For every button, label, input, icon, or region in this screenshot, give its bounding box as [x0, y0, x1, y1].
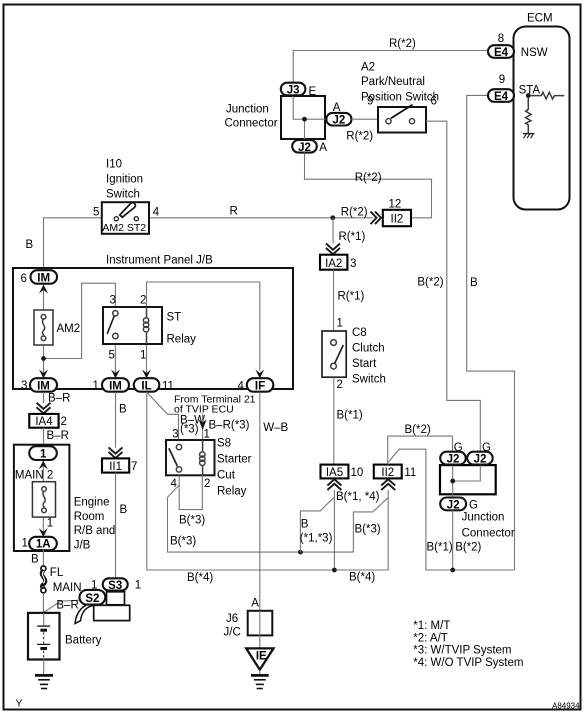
wire W-B from IF to J6	[260, 392, 289, 611]
svg-text:1: 1	[47, 518, 53, 530]
svg-text:IF: IF	[255, 381, 265, 393]
svg-text:J2: J2	[474, 454, 487, 466]
connector IA2 pin 3	[320, 255, 356, 270]
wire S8 pin 4 to pin 2 loop	[179, 475, 202, 509]
svg-text:1: 1	[204, 429, 210, 441]
wire R from ignition pin 4 to node R	[150, 206, 373, 219]
arrow down into 1A	[39, 528, 48, 537]
label From Terminal 21 of TVIP ECU	[174, 393, 256, 415]
wire B from 1A to FL MAIN	[31, 550, 43, 566]
svg-text:8: 8	[498, 33, 504, 45]
svg-text:MAIN: MAIN	[53, 582, 82, 594]
wire B(*1) from II2 top to right rail	[389, 449, 515, 570]
svg-text:ST: ST	[167, 312, 182, 324]
label A2 Park/Neutral Position Switch	[361, 62, 439, 104]
svg-text:*1: M/T: *1: M/T	[413, 620, 450, 632]
svg-text:B(*1): B(*1)	[427, 542, 453, 554]
wire from IL to S8 pin 3 (B-W *3)	[148, 393, 206, 440]
svg-text:B(*3): B(*3)	[179, 515, 205, 527]
svg-text:12: 12	[389, 199, 402, 211]
svg-text:B(*1, *4): B(*1, *4)	[336, 491, 380, 503]
connector J2 pin A (bottom)	[292, 140, 327, 154]
relay ST	[103, 295, 196, 362]
svg-text:1: 1	[140, 350, 146, 362]
svg-text:B–R(*3): B–R(*3)	[209, 420, 250, 432]
svg-text:W–B: W–B	[263, 422, 288, 434]
svg-text:A84934: A84934	[552, 702, 580, 711]
wire IM6 through AM2 fuse to IM3	[43, 284, 45, 378]
node R junction dot	[330, 215, 335, 220]
svg-text:J2: J2	[447, 454, 460, 466]
chassis ground inside ECM	[523, 134, 535, 139]
svg-text:E4: E4	[494, 91, 509, 103]
svg-text:B: B	[119, 404, 127, 416]
engine room R/B and J/B box	[14, 445, 115, 552]
svg-text:5: 5	[109, 350, 115, 362]
svg-text:C8: C8	[352, 327, 367, 339]
ECM U1	[514, 13, 570, 210]
wire ST relay coil pin 1 to IL	[146, 344, 148, 378]
svg-text:Instrument Panel J/B: Instrument Panel J/B	[106, 255, 213, 267]
arrow up into connector 1	[39, 461, 48, 470]
node STA junction dot	[526, 93, 531, 98]
svg-text:Cut: Cut	[217, 470, 236, 482]
svg-text:B(*2): B(*2)	[455, 542, 481, 554]
svg-text:B(*2): B(*2)	[417, 277, 443, 289]
wire B-R(*3) into S8 pin 1	[203, 414, 250, 441]
ground point IE	[246, 648, 273, 688]
svg-text:10: 10	[351, 467, 364, 479]
svg-text:IE: IE	[256, 651, 267, 663]
svg-text:R(*2): R(*2)	[346, 131, 373, 143]
svg-text:Ignition: Ignition	[106, 174, 143, 186]
chevron into II2 pin 12	[371, 212, 382, 225]
svg-text:E4: E4	[494, 47, 509, 59]
svg-text:Connector: Connector	[225, 118, 278, 130]
wire J2 to park/neutral pin 9	[346, 96, 378, 143]
connector 1A pin 1	[22, 537, 57, 551]
arrow down into IF	[255, 370, 264, 379]
svg-text:J/B: J/B	[74, 539, 91, 551]
svg-text:B: B	[120, 504, 128, 516]
connector IL pin 11	[134, 378, 174, 393]
svg-text:B–R: B–R	[48, 393, 70, 405]
chevron below IA5	[327, 479, 341, 490]
svg-text:6: 6	[21, 273, 27, 285]
svg-text:R: R	[230, 206, 238, 218]
svg-text:9: 9	[367, 96, 373, 108]
svg-text:J2: J2	[333, 115, 346, 127]
wire B from ECM pin 9 down right side	[467, 95, 515, 570]
svg-text:Relay: Relay	[217, 486, 247, 498]
svg-text:R(*2): R(*2)	[355, 172, 382, 184]
svg-text:S8: S8	[217, 438, 231, 450]
svg-text:Connector: Connector	[462, 528, 515, 540]
svg-text:B–R: B–R	[47, 430, 69, 442]
svg-text:Y: Y	[16, 698, 23, 710]
fuse AM2	[34, 310, 80, 345]
connector S2	[80, 590, 106, 605]
connector E4 pin 9	[488, 74, 540, 103]
connector J2 pin A (right)	[326, 102, 351, 127]
wire B(*2) from J2 G to II2 pin 11	[388, 424, 453, 465]
connector IA5 pin 10	[321, 465, 364, 479]
svg-text:IM: IM	[37, 381, 50, 393]
svg-text:II2: II2	[391, 214, 404, 226]
ground below battery	[35, 660, 53, 689]
wire B(*1,*3) from IA5 to junction	[300, 497, 335, 552]
svg-text:I10: I10	[106, 159, 122, 171]
wire B(*4) from IL down and right to II2	[147, 392, 388, 584]
svg-text:J3: J3	[287, 85, 300, 97]
fuse MAIN (engine room)	[32, 482, 55, 517]
fusible link FL MAIN	[41, 566, 82, 594]
wire inside engine room box	[42, 459, 44, 482]
svg-text:IA2: IA2	[325, 258, 342, 270]
svg-text:S3: S3	[108, 580, 122, 592]
svg-text:Battery: Battery	[65, 635, 102, 647]
wire R(*2) from node J3 to ECM pin 8	[293, 38, 488, 83]
svg-text:MAIN 2: MAIN 2	[15, 470, 53, 482]
svg-text:4: 4	[153, 207, 160, 219]
svg-text:2: 2	[204, 478, 210, 490]
connector II2 pin 11	[374, 465, 417, 479]
svg-text:IM: IM	[109, 381, 122, 393]
wire B(*1) from C8 pin 2 to IA5	[334, 377, 363, 464]
svg-text:R(*1): R(*1)	[339, 231, 366, 243]
connector J2 pin G (bottom)	[440, 498, 478, 512]
svg-text:B: B	[26, 239, 34, 251]
svg-text:R(*1): R(*1)	[338, 291, 365, 303]
svg-text:of TVIP ECU: of TVIP ECU	[174, 403, 234, 415]
connector S3 pin 1	[91, 578, 141, 592]
svg-text:Relay: Relay	[167, 334, 197, 346]
svg-text:R/B and: R/B and	[74, 525, 116, 537]
svg-text:*3: W/TVIP System: *3: W/TVIP System	[413, 645, 511, 657]
connector IM pin 1	[93, 378, 130, 393]
arrow up into IM6	[39, 285, 48, 294]
wire B(*1,*4) from IA5 chevron down to rail	[334, 490, 379, 570]
svg-text:IM: IM	[37, 273, 50, 285]
wire B(*2) from pin 6 down to J2 G	[417, 96, 480, 452]
svg-text:Start: Start	[352, 358, 377, 370]
wire J6 to IE ground	[259, 611, 261, 648]
svg-text:S2: S2	[85, 593, 99, 605]
svg-text:Junction: Junction	[462, 512, 505, 524]
junction connector J6 J/C	[224, 597, 273, 638]
arrow down on wire into S8 pin 1	[199, 419, 207, 430]
svg-text:J2: J2	[447, 500, 460, 512]
wire inside junction connector to bottom	[304, 119, 306, 140]
svg-text:B: B	[31, 554, 39, 566]
connector J3 pin E	[281, 83, 317, 98]
wire R(*1) from IA2 to clutch start switch	[334, 270, 365, 331]
svg-text:9: 9	[499, 74, 505, 86]
chevron above II1	[109, 447, 123, 458]
wire B from ignition switch pin 5 down to IM6	[26, 218, 103, 270]
svg-text:R(*2): R(*2)	[389, 38, 416, 50]
svg-text:1: 1	[22, 538, 28, 550]
svg-text:J/C: J/C	[224, 626, 241, 638]
connector IM pin 3	[21, 378, 57, 393]
wire from FL MAIN to battery	[42, 593, 44, 613]
connector IA4 pin 2	[29, 414, 67, 428]
svg-text:R(*2): R(*2)	[341, 207, 368, 219]
node dot inside lower junction connector	[450, 479, 455, 484]
svg-text:(*3): (*3)	[180, 424, 199, 436]
svg-text:IA4: IA4	[35, 416, 53, 428]
svg-text:1A: 1A	[36, 539, 51, 551]
svg-text:3: 3	[21, 380, 27, 392]
svg-text:11: 11	[404, 467, 416, 479]
svg-text:3: 3	[350, 258, 356, 270]
connector J2 pin G (left)	[440, 442, 466, 466]
node junction dot	[302, 117, 307, 122]
svg-text:Engine: Engine	[74, 497, 110, 509]
svg-text:E: E	[309, 86, 317, 98]
svg-text:B(*4): B(*4)	[349, 572, 375, 584]
svg-text:B–R: B–R	[56, 600, 78, 612]
notes *1..*4	[413, 620, 523, 669]
svg-text:Starter: Starter	[217, 454, 252, 466]
svg-text:B: B	[301, 519, 309, 531]
battery	[28, 613, 102, 660]
svg-text:3: 3	[110, 295, 116, 307]
connector II2 pin 12	[383, 199, 411, 227]
svg-text:*4: W/O TVIP System: *4: W/O TVIP System	[413, 657, 523, 669]
svg-text:(*1,*3): (*1,*3)	[300, 533, 333, 545]
chevron above IA4	[37, 403, 51, 414]
svg-text:Park/Neutral: Park/Neutral	[361, 76, 425, 88]
svg-text:B(*4): B(*4)	[187, 572, 213, 584]
label junction connector (lower)	[462, 512, 515, 540]
connector IM pin 6	[21, 270, 58, 285]
connector 1 (engine room top)	[29, 446, 57, 461]
svg-text:4: 4	[238, 381, 245, 393]
svg-text:II1: II1	[109, 461, 122, 473]
svg-text:AM2: AM2	[102, 222, 124, 234]
park/neutral position switch A2	[378, 105, 426, 133]
svg-text:J2: J2	[298, 142, 311, 154]
wire from J2 G bottom to rail dot	[452, 510, 454, 570]
svg-text:11: 11	[162, 381, 174, 393]
chevron above IA2	[326, 244, 340, 255]
wire inside lower junction connector	[452, 465, 454, 499]
instrument panel J/B box	[13, 255, 293, 390]
svg-text:ECM: ECM	[527, 13, 553, 25]
svg-text:Switch: Switch	[106, 189, 140, 201]
svg-text:B: B	[470, 277, 478, 289]
svg-text:A2: A2	[361, 62, 375, 74]
svg-text:IA5: IA5	[326, 467, 343, 479]
chevron below II2	[381, 479, 395, 490]
resistor R horizontal at STA	[531, 92, 565, 99]
resistor R vertical at STA	[526, 98, 531, 134]
svg-text:Clutch: Clutch	[352, 342, 385, 354]
svg-text:Switch: Switch	[352, 373, 386, 385]
arrow down into IM3	[39, 370, 48, 379]
wire B-R from IA4 to engine room J/B	[44, 428, 69, 446]
junction connector J2/J3 body	[281, 96, 325, 139]
svg-text:G: G	[469, 499, 478, 511]
svg-text:2: 2	[337, 379, 343, 391]
svg-text:5: 5	[93, 207, 99, 219]
wire from II2 chevron down to rail corner	[387, 490, 389, 570]
wire R(*2) from J2 A to connector II2	[305, 153, 432, 218]
wire B(*3) up to II2 chevron	[353, 498, 388, 552]
svg-text:II2: II2	[381, 467, 394, 479]
label I10 Ignition Switch	[106, 159, 143, 201]
svg-text:ST2: ST2	[127, 222, 146, 234]
svg-text:7: 7	[131, 461, 137, 473]
node dot below AM2	[41, 356, 46, 361]
wire inside junction connector	[293, 96, 326, 119]
junction connector (lower) body	[440, 465, 496, 494]
svg-text:*2: A/T: *2: A/T	[413, 632, 448, 644]
connector II1 pin 7	[102, 458, 137, 473]
starter body pictogram	[75, 592, 130, 624]
ignition switch I10	[93, 202, 160, 234]
clutch start switch C8	[322, 318, 386, 391]
svg-text:NSW: NSW	[521, 47, 548, 59]
svg-text:A: A	[251, 597, 259, 609]
svg-text:1: 1	[135, 580, 141, 592]
wire from ST relay coil pin 2 to IF	[147, 282, 260, 371]
wire B(*3) from S8 pin 4 to junction	[168, 485, 354, 552]
svg-text:B(*2): B(*2)	[405, 424, 431, 436]
relay S8 starter cut	[166, 429, 252, 498]
wire B-R from IM3 to IA4	[44, 392, 71, 405]
svg-text:AM2: AM2	[57, 323, 81, 335]
node dot on B(*4) rail	[332, 568, 337, 573]
svg-text:FL: FL	[50, 567, 64, 579]
svg-text:J6: J6	[226, 613, 238, 625]
connector E4 pin 8	[488, 33, 548, 59]
svg-text:3: 3	[172, 429, 178, 441]
svg-text:2: 2	[61, 416, 67, 428]
node dot on right rail	[450, 568, 455, 573]
arrow down into IM1	[111, 370, 120, 379]
node dot B(*1,*3) junction	[298, 550, 303, 555]
wire B from IM1 to II1	[116, 392, 128, 448]
svg-text:1: 1	[93, 380, 99, 392]
svg-text:1: 1	[40, 449, 47, 461]
connector IF pin 4	[238, 378, 274, 393]
svg-text:6: 6	[431, 96, 437, 108]
svg-text:Junction: Junction	[226, 104, 269, 116]
svg-text:IL: IL	[141, 381, 151, 393]
svg-text:A: A	[319, 142, 327, 154]
svg-text:2: 2	[140, 295, 146, 307]
junction connector J2/J3 (top) label	[225, 104, 278, 130]
svg-text:B(*3): B(*3)	[170, 536, 196, 548]
svg-text:B(*3): B(*3)	[355, 524, 381, 536]
arrow down into IL	[142, 370, 151, 379]
connector J2 pin G (right)	[467, 442, 493, 466]
svg-text:B(*1): B(*1)	[337, 410, 363, 422]
wire ST relay pin 5 to IM1	[114, 344, 116, 378]
wire from AM2 node to ST relay pin 3	[44, 283, 116, 358]
wire B-R from battery to S2	[44, 600, 80, 613]
wire R(*1) from node R down to IA2	[333, 218, 366, 244]
svg-text:1: 1	[337, 318, 343, 330]
svg-text:Room: Room	[74, 511, 105, 523]
wire B from II1 to S3	[116, 473, 128, 579]
